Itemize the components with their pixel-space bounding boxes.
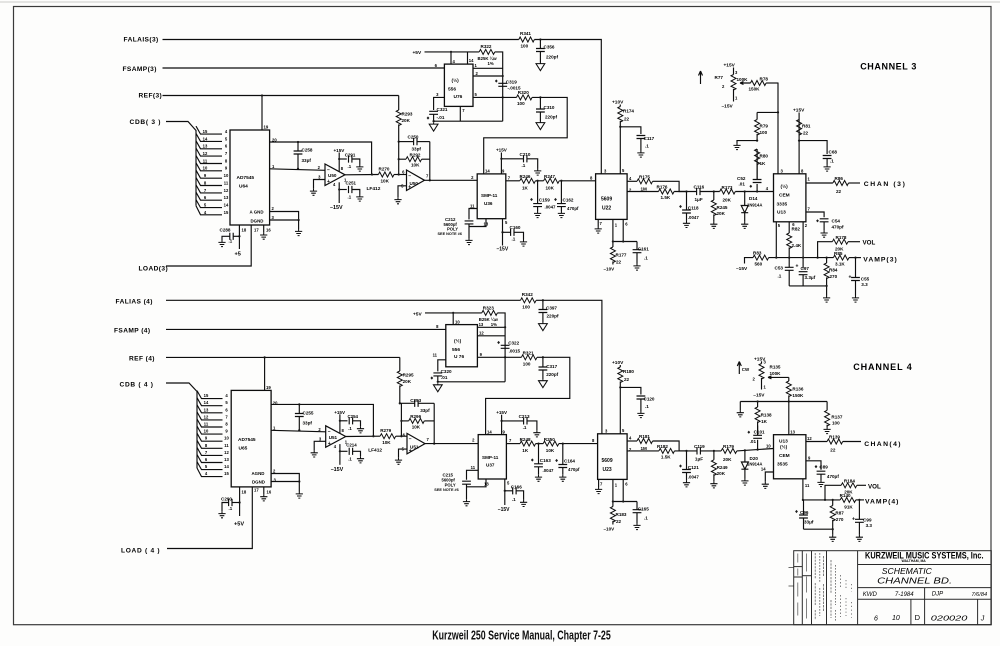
wire FSAMP(3) to U76 pin 6 (163, 67, 445, 69)
svg-text:R184: R184 (844, 479, 855, 484)
svg-text:9: 9 (502, 169, 505, 174)
svg-text:14: 14 (469, 58, 474, 63)
wire pin 3 to C321 (434, 97, 445, 110)
svg-text:C165: C165 (638, 506, 649, 511)
wire C320 to ground trace (437, 376, 439, 382)
svg-text:4: 4 (629, 436, 632, 441)
resistor R246 (520, 178, 536, 183)
resistor R180 vertical (618, 365, 623, 434)
svg-text:270: 270 (830, 274, 838, 279)
svg-text:REF(3): REF(3) (139, 92, 163, 99)
pin 7 stub (459, 106, 461, 121)
svg-text:3535: 3535 (777, 462, 788, 468)
capacitor C321 (429, 111, 438, 114)
C121 diamond (679, 464, 682, 467)
svg-text:8: 8 (341, 166, 344, 171)
svg-text:DGND: DGND (251, 219, 264, 224)
wire DAC pin 20 feedback (270, 142, 372, 175)
ground C291 (356, 165, 363, 172)
resistor R321 (521, 355, 537, 360)
ground DAC4 (296, 482, 303, 499)
node C210 tap (500, 158, 502, 160)
svg-text:5: 5 (475, 92, 478, 97)
svg-text:VAMP(3): VAMP(3) (863, 256, 897, 263)
wire pin 12 to R139 (806, 441, 827, 443)
resistor R78 (751, 81, 767, 86)
svg-text:4: 4 (629, 176, 632, 181)
svg-text:R183: R183 (616, 512, 627, 517)
svg-text:20K: 20K (717, 471, 726, 476)
pin 11 stub U13b (802, 479, 804, 500)
wire R279 to op-amp2 ch4 (396, 435, 407, 437)
svg-text:+5V: +5V (413, 50, 422, 56)
svg-text:C89: C89 (819, 465, 828, 470)
capacitor C97 polarized (799, 272, 808, 286)
resistor R81 vertical (797, 120, 802, 136)
ground D20 (741, 479, 748, 486)
wire pin 8 +15V (798, 113, 800, 174)
ground C215 (463, 499, 470, 506)
svg-text:5: 5 (205, 464, 208, 469)
svg-text:6: 6 (625, 222, 628, 227)
svg-text:LOAD(3): LOAD(3) (139, 265, 169, 272)
node C117 tap (619, 126, 621, 128)
C54 diamond (816, 219, 819, 222)
node C250 left (398, 140, 400, 142)
svg-text:7: 7 (225, 151, 228, 156)
node C159 tap (536, 180, 538, 182)
title area left edge (857, 551, 859, 625)
svg-text:R295: R295 (403, 373, 414, 378)
svg-text:220pf: 220pf (546, 55, 558, 60)
ground C160 (520, 240, 527, 247)
svg-text:.1: .1 (644, 516, 648, 521)
diode D20 (741, 450, 748, 478)
title block outer box (794, 551, 992, 625)
resistor R320 (517, 95, 533, 100)
svg-text:(½): (½) (780, 443, 788, 450)
svg-text:14: 14 (204, 400, 209, 405)
svg-text:.1: .1 (644, 256, 648, 261)
svg-text:5: 5 (505, 220, 508, 225)
svg-text:C117: C117 (644, 136, 655, 141)
svg-text:7: 7 (600, 482, 603, 487)
resistor R87 vertical (830, 500, 835, 535)
svg-text:C320: C320 (441, 369, 452, 374)
svg-text:C161: C161 (638, 246, 649, 251)
svg-text:.0015: .0015 (509, 349, 521, 354)
wire FALIAS(4) (166, 299, 521, 301)
svg-text:+15V: +15V (724, 63, 736, 69)
ground DAC analog (295, 220, 302, 236)
sample-hold SMP-11 U36 box (477, 174, 506, 219)
ground op-amp pin3 (310, 189, 317, 196)
svg-text:C101: C101 (754, 430, 765, 435)
C159 diamond (530, 198, 533, 201)
svg-text:–15V: –15V (498, 507, 510, 513)
svg-text:1.5K: 1.5K (661, 454, 671, 459)
revision strip divider 1 (801, 551, 803, 625)
svg-text:7: 7 (600, 221, 603, 226)
svg-text:18: 18 (242, 490, 247, 495)
op-amp U50a triangle (325, 164, 345, 186)
svg-text:5: 5 (204, 203, 207, 208)
bottom row divider a (910, 599, 912, 624)
svg-text:C163: C163 (540, 458, 551, 463)
svg-text:12: 12 (203, 151, 208, 156)
svg-text:1K: 1K (522, 185, 529, 190)
svg-text:1K: 1K (760, 161, 767, 166)
wire pin 5 to ground U51b (399, 449, 408, 458)
svg-text:1: 1 (735, 96, 738, 101)
capacitor C215 (462, 481, 471, 484)
svg-text:+15V: +15V (754, 356, 766, 362)
svg-text:100K: 100K (737, 77, 749, 82)
svg-text:R176: R176 (657, 185, 668, 190)
svg-text:1: 1 (273, 426, 276, 431)
svg-text:KWD: KWD (863, 592, 878, 598)
svg-text:+: + (409, 448, 412, 454)
pin 7 stub U23 (598, 479, 600, 487)
svg-text:100: 100 (523, 361, 531, 366)
svg-text:–10V: –10V (604, 527, 616, 532)
svg-text:13: 13 (224, 457, 229, 462)
svg-text:R245: R245 (717, 205, 728, 210)
ground C117 (637, 151, 644, 158)
node U23 output (685, 450, 687, 452)
pin 13 wire U37 (467, 479, 487, 487)
ground C254 (357, 426, 364, 433)
node D20 tap (744, 449, 746, 451)
svg-text:-.01: -.01 (437, 115, 445, 120)
ground pin 17 (260, 225, 267, 239)
node R245 tap (713, 190, 715, 192)
svg-text:+5: +5 (235, 252, 241, 258)
pin 5 stub U37 (504, 479, 506, 505)
svg-text:R248: R248 (520, 437, 531, 442)
wire R270 to op-amp2 (394, 174, 407, 176)
svg-text:3: 3 (318, 175, 321, 180)
svg-text:U65: U65 (239, 446, 248, 452)
node pin8 C254 (339, 420, 341, 422)
pin 13 wire (477, 326, 505, 328)
svg-text:R82: R82 (792, 227, 801, 232)
node pin4 C214 (339, 450, 341, 452)
svg-text:20K: 20K (723, 457, 732, 462)
wire pin 11 to C215 (467, 470, 479, 479)
svg-text:–15V: –15V (736, 266, 748, 272)
svg-text:C160: C160 (510, 225, 521, 230)
svg-text:U51: U51 (329, 435, 338, 440)
svg-text:1μF: 1μF (695, 197, 703, 202)
node C288 tap (238, 235, 240, 237)
svg-text:.1: .1 (229, 506, 233, 511)
pin 2 wire (473, 75, 503, 77)
svg-text:10K: 10K (546, 448, 555, 453)
wire R175 around to node (653, 181, 687, 191)
svg-text:D20: D20 (750, 456, 759, 461)
wire C54 to ground (823, 222, 825, 231)
svg-text:19: 19 (264, 125, 269, 130)
wire R250 to U23 (559, 443, 598, 445)
svg-text:14: 14 (761, 467, 766, 472)
svg-text:CHANNEL 4: CHANNEL 4 (853, 362, 912, 372)
wire pin 18 to +5 (238, 225, 240, 249)
svg-text:C55: C55 (861, 276, 870, 281)
analog ground C397 (539, 322, 548, 331)
svg-text:C291: C291 (345, 152, 356, 157)
svg-text:8: 8 (225, 422, 228, 427)
capacitor C250 (399, 138, 430, 145)
svg-text:C68: C68 (829, 150, 838, 155)
wire C119 to R179 (700, 450, 721, 452)
svg-text:.1: .1 (512, 237, 516, 242)
node R79 R80 junction (756, 139, 758, 141)
svg-text:3: 3 (604, 169, 607, 174)
svg-text:1: 1 (615, 482, 618, 487)
svg-text:+10V: +10V (612, 100, 624, 106)
node pin2 rail (802, 256, 804, 258)
wire C212 to ground (468, 224, 470, 238)
svg-text:11: 11 (471, 465, 476, 470)
svg-text:WALTHAM, MA: WALTHAM, MA (902, 559, 927, 563)
node pin4 (450, 51, 452, 53)
wire R78 to CV vertical (766, 82, 778, 84)
svg-text:LOAD ( 4 ): LOAD ( 4 ) (121, 548, 160, 555)
ground C68 (824, 165, 831, 172)
node C166 tap (504, 490, 506, 492)
svg-text:R175: R175 (639, 174, 650, 179)
resistor R136 vertical (786, 377, 791, 434)
svg-text:6: 6 (225, 407, 228, 412)
svg-text:556: 556 (452, 347, 460, 353)
wire pin 9 +15V stub (500, 153, 502, 174)
svg-text:+5V: +5V (234, 522, 244, 528)
op-amp U50b triangle (407, 170, 425, 191)
svg-text:R140: R140 (840, 493, 851, 498)
svg-text:2: 2 (273, 469, 276, 474)
svg-text:4: 4 (766, 186, 769, 191)
wire DAC pin 19 (261, 96, 263, 131)
svg-text:R249: R249 (717, 465, 728, 470)
svg-text:R138: R138 (761, 413, 772, 418)
svg-text:1: 1 (764, 384, 767, 389)
svg-text:R84: R84 (829, 268, 838, 273)
svg-text:1M: 1M (641, 446, 648, 451)
svg-text:15: 15 (224, 210, 229, 215)
svg-text:7: 7 (205, 450, 208, 455)
node pin3 tie (297, 219, 299, 221)
svg-text:R86: R86 (835, 176, 844, 181)
node pin13 (504, 326, 506, 328)
svg-text:C99: C99 (863, 517, 872, 522)
svg-text:CHANNEL 3: CHANNEL 3 (860, 61, 917, 71)
capacitor C212 (465, 221, 474, 224)
svg-text:3: 3 (319, 436, 322, 441)
svg-text:R178: R178 (836, 235, 847, 240)
resistor R85 (833, 255, 849, 260)
svg-text:.01: .01 (441, 375, 448, 380)
svg-text:SMP-11: SMP-11 (482, 455, 499, 460)
capacitor C356 (536, 40, 545, 63)
svg-text:Kurzweil 250 Service Manual, C: Kurzweil 250 Service Manual, Chapter 7-2… (432, 627, 611, 642)
svg-text:+: + (849, 275, 852, 281)
wire pin 1 to R86 (806, 182, 833, 184)
wire feedback left leg (398, 142, 400, 175)
svg-text:R136: R136 (792, 387, 803, 392)
resistor R249 vertical (711, 451, 716, 481)
svg-text:SCHEMATIC: SCHEMATIC (882, 567, 932, 576)
svg-text:7: 7 (427, 437, 430, 442)
svg-text:+10V: +10V (612, 360, 624, 366)
wire -15V to R83 (745, 258, 754, 264)
svg-text:R341: R341 (520, 31, 531, 36)
wire U23 bottom rail (613, 501, 637, 503)
svg-text:220pf: 220pf (546, 372, 558, 377)
C321 diamond (427, 116, 430, 119)
wire pin 14 to ground (765, 472, 773, 482)
svg-text:22: 22 (616, 519, 622, 524)
svg-text:10: 10 (455, 319, 460, 324)
svg-text:11: 11 (805, 483, 810, 488)
svg-text:R139: R139 (829, 435, 840, 440)
node C160 tap (501, 231, 503, 233)
node R87 rail (832, 499, 834, 501)
svg-text:5609: 5609 (602, 458, 613, 464)
DAC pin numbers inside (224, 129, 229, 215)
svg-text:C116: C116 (694, 185, 705, 190)
svg-text:R246: R246 (520, 174, 531, 179)
capacitor C89 (817, 471, 826, 474)
revision strip vertical scribble text (798, 553, 852, 622)
svg-text:3.3: 3.3 (866, 523, 873, 528)
svg-text:9: 9 (225, 166, 228, 171)
node pin6 rail (622, 240, 624, 242)
svg-text:C119: C119 (694, 444, 705, 449)
svg-text:14: 14 (487, 429, 492, 434)
resistor R181 (637, 439, 653, 444)
svg-text:C166: C166 (511, 485, 522, 490)
pin 1 wire (473, 67, 503, 69)
C162 diamond (554, 198, 557, 201)
wire R341 to FALAIS vertical (534, 40, 601, 174)
wire LOAD(3) to DAC (166, 225, 251, 266)
svg-text:1: 1 (615, 222, 618, 227)
resistor R322 (479, 49, 495, 54)
capacitor C121 (682, 451, 691, 480)
pin 8 power stub (338, 153, 340, 172)
resistor R245 vertical (711, 192, 716, 222)
svg-text:.1: .1 (830, 158, 834, 163)
resistor R179 (721, 448, 737, 453)
pin 2 stub CEM (802, 222, 804, 269)
svg-text:7: 7 (426, 174, 429, 179)
wire R248 R250 (536, 443, 544, 445)
svg-text:3: 3 (272, 215, 275, 220)
svg-text:13: 13 (484, 221, 489, 226)
wire pin 9 +15V stub U37 (501, 415, 503, 435)
svg-text:U37: U37 (486, 463, 495, 468)
svg-text:R87: R87 (835, 511, 844, 516)
wire DAC4 pin 1 to op-amp (271, 430, 326, 432)
capacitor C117 (620, 127, 645, 151)
capacitor C251 (339, 186, 360, 195)
svg-text:8: 8 (590, 175, 593, 180)
capacitor C119 series (697, 447, 700, 454)
svg-text:8: 8 (801, 168, 804, 173)
capacitor C101 (753, 435, 762, 449)
svg-text:R81: R81 (802, 123, 811, 128)
DAC U65 box (231, 390, 271, 487)
svg-text:C250: C250 (408, 134, 419, 139)
svg-text:5: 5 (507, 480, 510, 485)
capacitor C258 (294, 142, 303, 169)
svg-text:8: 8 (205, 443, 208, 448)
svg-text:+15V: +15V (793, 107, 805, 113)
svg-text:33pf: 33pf (412, 146, 422, 151)
capacitor C320 (433, 373, 442, 376)
node pin6 rail U23 (622, 500, 624, 502)
svg-text:2: 2 (753, 376, 756, 381)
svg-text:+15V: +15V (496, 148, 508, 153)
capacitor C160 (503, 229, 524, 240)
ground R137 (824, 427, 831, 434)
node pin5 junction (502, 96, 504, 98)
wire junction to ground left (737, 141, 757, 143)
svg-text:6: 6 (402, 169, 405, 174)
node pin5 rail (775, 256, 777, 258)
scan edge artifact top (0, 1, 1000, 3)
svg-text:D14: D14 (749, 196, 758, 201)
svg-text:+: + (408, 185, 411, 191)
svg-text:1K: 1K (522, 448, 529, 453)
svg-text:470pf: 470pf (832, 225, 844, 230)
ground C89 (817, 480, 824, 487)
svg-text:FALAIS(3): FALAIS(3) (124, 37, 159, 44)
svg-text:10K: 10K (381, 179, 390, 184)
pin 5 stub (502, 219, 504, 246)
svg-text:U22: U22 (602, 206, 611, 212)
svg-text:AD7545: AD7545 (238, 437, 256, 443)
svg-text:3: 3 (781, 169, 784, 174)
svg-text:1N914A: 1N914A (747, 203, 762, 208)
node C310 tap (539, 96, 541, 98)
svg-text:U23: U23 (603, 467, 612, 473)
wire R79 to CV node (757, 111, 778, 113)
svg-text:270: 270 (836, 517, 844, 522)
svg-text:C255: C255 (303, 410, 314, 415)
svg-text:.1: .1 (512, 497, 516, 502)
capacitor C96 polarized (799, 500, 808, 529)
svg-text:C164: C164 (564, 459, 575, 464)
node VOL tap rail (816, 256, 818, 258)
ground C288 (218, 240, 225, 247)
wire R322 down chain (495, 52, 503, 121)
svg-text:22: 22 (836, 189, 842, 194)
svg-text:91K: 91K (844, 504, 853, 509)
svg-text:7: 7 (225, 414, 228, 419)
bus bit numbers outside ch4 (204, 393, 209, 476)
analog ground C356 (536, 62, 545, 71)
resistor R250 (543, 441, 559, 446)
wire pin 14 stub (467, 52, 469, 64)
node pin9 junction (504, 356, 506, 358)
wire pin 5 to ground (398, 186, 407, 197)
svg-text:R321: R321 (523, 351, 534, 356)
svg-text:1μF: 1μF (695, 456, 703, 461)
op-amp U51b triangle (407, 433, 425, 454)
wire R342 to FALIAS vertical (536, 300, 602, 434)
